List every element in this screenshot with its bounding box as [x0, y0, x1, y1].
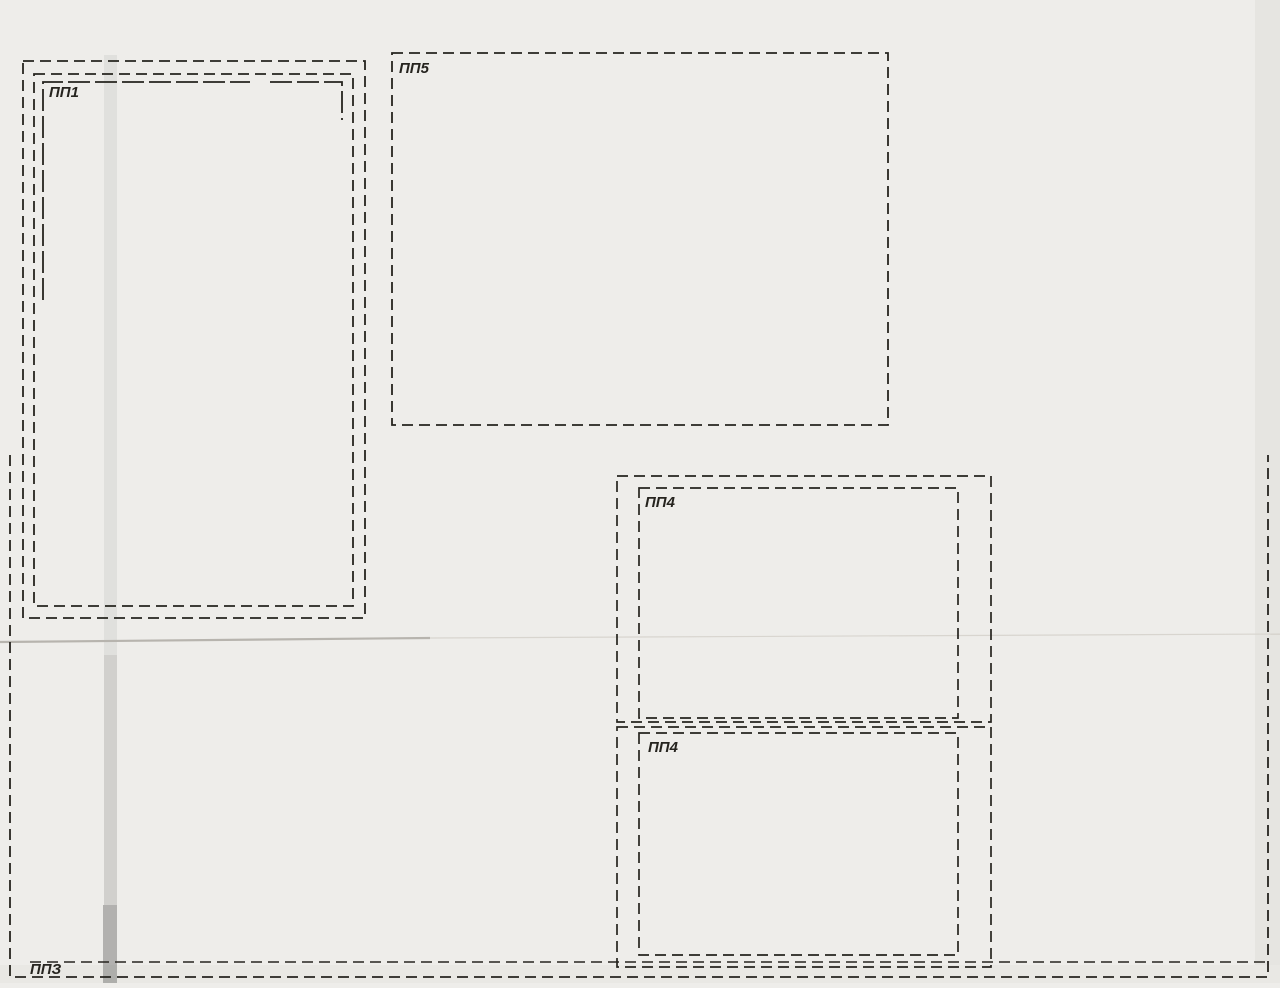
- outer chassis dashed frame left: [10, 455, 1268, 977]
- svg-text:ППЗ: ППЗ: [30, 961, 62, 978]
- outer chassis dashed frame bottom inner: [30, 961, 1268, 963]
- PP5 block dashed frame: [392, 53, 888, 425]
- PP4 lower outer dashed frame: [617, 727, 991, 967]
- PP1 block inner frame: [43, 82, 250, 300]
- PP4 upper outer dashed frame: [617, 476, 991, 722]
- scan band artifact vertical: [104, 55, 117, 655]
- svg-text:ПП4: ПП4: [648, 739, 679, 756]
- fold crease: [0, 638, 430, 642]
- svg-text:ПП4: ПП4: [645, 494, 676, 511]
- svg-text:ПП1: ПП1: [49, 84, 79, 101]
- PP1 block outer dashed frame: [23, 61, 365, 618]
- PP1 block middle dashed frame: [34, 74, 353, 606]
- svg-text:ПП5: ПП5: [399, 60, 430, 77]
- PP4 upper inner dashed frame: [639, 488, 958, 718]
- PP4 lower inner dashed frame: [639, 733, 958, 955]
